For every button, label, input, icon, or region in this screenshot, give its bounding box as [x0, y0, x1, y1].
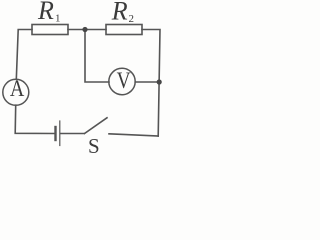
svg-text:R: R — [37, 0, 54, 25]
switch S blade — [85, 118, 108, 134]
ammeter U1 circle — [3, 79, 29, 105]
battery BT1 positive plate — [59, 121, 61, 146]
node B junction dot — [157, 79, 162, 84]
wire switch contact to bottom-right corner — [109, 134, 158, 136]
wire top-left to R1 — [16, 30, 32, 80]
wire R1 to R2 — [68, 29, 106, 31]
resistor R1 — [32, 25, 68, 35]
wire node A down to voltmeter — [85, 30, 109, 83]
wire ammeter to bottom-left corner — [15, 105, 55, 133]
svg-text:1: 1 — [55, 13, 61, 25]
svg-text:V: V — [117, 67, 132, 93]
svg-text:2: 2 — [129, 13, 135, 25]
wire R2 to top-right corner and down — [142, 30, 160, 137]
resistor R2 — [106, 25, 142, 35]
wire voltmeter to right wire — [135, 81, 159, 83]
wire battery to switch pivot — [61, 133, 85, 135]
svg-text:S: S — [88, 134, 100, 158]
battery BT1 negative plate — [54, 127, 56, 140]
node A junction dot — [82, 27, 87, 32]
svg-text:A: A — [10, 76, 25, 102]
voltmeter U2 circle — [109, 68, 135, 94]
svg-text:R: R — [111, 0, 128, 26]
